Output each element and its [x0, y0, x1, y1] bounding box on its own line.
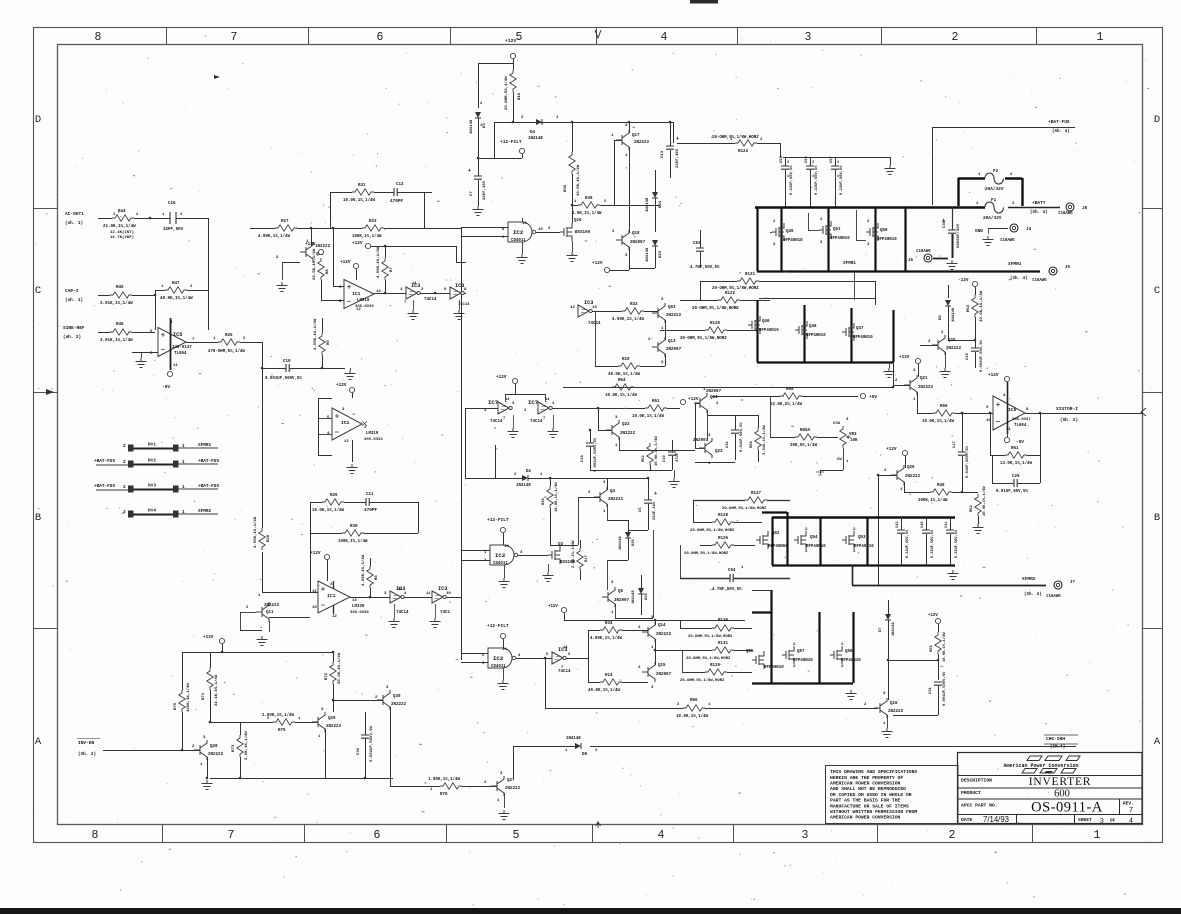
svg-text:1N2222: 1N2222 — [315, 245, 331, 249]
svg-text:2N2907: 2N2907 — [706, 390, 722, 394]
svg-text:20.5K,1%,1/4W: 20.5K,1%,1/4W — [312, 248, 317, 280]
svg-text:74C14: 74C14 — [424, 298, 437, 302]
svg-text:2: 2 — [123, 485, 126, 490]
svg-text:2.0K,1%,1/4W: 2.0K,1%,1/4W — [244, 731, 249, 760]
svg-text:3: 3 — [805, 31, 812, 44]
svg-text:Q29: Q29 — [328, 717, 336, 721]
svg-text:100K,1%,1/4W: 100K,1%,1/4W — [338, 539, 368, 544]
svg-text:10K: 10K — [850, 439, 858, 443]
svg-text:C31: C31 — [726, 440, 730, 448]
svg-text:+12V: +12V — [688, 397, 699, 402]
svg-text:R131: R131 — [718, 642, 729, 646]
svg-text:10: 10 — [312, 606, 317, 610]
svg-text:R26: R26 — [225, 334, 233, 338]
svg-text:Q48: Q48 — [809, 325, 817, 329]
svg-text:100K,1%,1/4W: 100K,1%,1/4W — [918, 498, 948, 503]
svg-text:+12V: +12V — [352, 241, 363, 246]
svg-text:#16AWG: #16AWG — [1058, 212, 1073, 216]
svg-text:R36: R36 — [585, 197, 593, 201]
svg-text:22UF,16V: 22UF,16V — [483, 180, 487, 200]
svg-text:14: 14 — [502, 648, 507, 652]
svg-text:Q51: Q51 — [833, 228, 841, 232]
svg-text:1: 1 — [812, 175, 814, 179]
svg-text:RFP40N10: RFP40N10 — [806, 545, 826, 549]
svg-text:C64: C64 — [728, 569, 736, 573]
svg-text:Q23: Q23 — [715, 450, 723, 454]
svg-text:H#3: H#3 — [148, 484, 156, 489]
svg-text:14: 14 — [545, 398, 550, 402]
svg-text:20-OHM,5%,1/8W,HORZ: 20-OHM,5%,1/8W,HORZ — [680, 678, 725, 683]
svg-text:10.0K,1%,1/4W: 10.0K,1%,1/4W — [922, 419, 954, 424]
svg-text:Q27: Q27 — [507, 779, 515, 783]
svg-text:0.001UF,50V,5%: 0.001UF,50V,5% — [980, 339, 984, 372]
svg-text:7: 7 — [231, 31, 238, 44]
svg-text:0.001UF,500V,5%: 0.001UF,500V,5% — [265, 377, 302, 381]
svg-text:14: 14 — [563, 646, 568, 650]
svg-text:R61: R61 — [1011, 447, 1019, 451]
svg-text:4.99K,1%,1/4W: 4.99K,1%,1/4W — [258, 234, 290, 239]
svg-text:4.99K,1%,1/4W: 4.99K,1%,1/4W — [253, 516, 258, 548]
svg-text:OS-0911-A: OS-0911-A — [1031, 800, 1103, 816]
svg-text:D5: D5 — [939, 315, 943, 320]
svg-text:600: 600 — [1054, 789, 1070, 800]
svg-text:470PF: 470PF — [364, 508, 378, 513]
svg-text:Q50: Q50 — [880, 229, 888, 233]
svg-text:2N2222: 2N2222 — [264, 604, 280, 608]
svg-text:340-0347: 340-0347 — [1012, 418, 1031, 422]
svg-text:R53: R53 — [967, 304, 971, 312]
svg-text:0.22UF,50V,5%: 0.22UF,50V,5% — [815, 165, 819, 195]
svg-text:20-OHM,5%,1/8W,HORZ: 20-OHM,5%,1/8W,HORZ — [684, 551, 729, 556]
svg-text:OR COPIED OR USED IN WHOLE OR: OR COPIED OR USED IN WHOLE OR — [830, 792, 912, 798]
svg-text:R29: R29 — [330, 494, 338, 498]
svg-text:AND SHALL NOT BE REPRODUCED: AND SHALL NOT BE REPRODUCED — [830, 786, 906, 792]
svg-text:RFP40N1E: RFP40N1E — [783, 239, 803, 243]
svg-text:20-OHM,5%,1/8W,HORZ: 20-OHM,5%,1/8W,HORZ — [686, 656, 731, 661]
svg-text:#16AWG: #16AWG — [1032, 279, 1047, 283]
svg-text:+12V: +12V — [886, 447, 897, 452]
svg-text:2N2907: 2N2907 — [630, 241, 646, 245]
svg-text:4.99K,1%,1/4W: 4.99K,1%,1/4W — [590, 636, 622, 641]
svg-text:(sh. 2): (sh. 2) — [63, 335, 81, 340]
svg-text:2: 2 — [123, 444, 126, 449]
svg-text:D26: D26 — [645, 592, 649, 600]
svg-text:(Sh. 2): (Sh. 2) — [1060, 418, 1078, 423]
svg-text:#16AWG: #16AWG — [1046, 595, 1061, 599]
svg-text:1.00K,1%,1/4W: 1.00K,1%,1/4W — [428, 777, 460, 782]
svg-text:R35: R35 — [564, 184, 568, 192]
svg-text:F1: F1 — [991, 198, 997, 203]
svg-text:7: 7 — [561, 666, 563, 670]
svg-text:CW: CW — [837, 458, 842, 462]
svg-text:OF: OF — [1110, 819, 1116, 824]
svg-text:+BATT: +BATT — [1032, 200, 1046, 206]
svg-text:0.22UF,50V,5%: 0.22UF,50V,5% — [906, 529, 910, 558]
svg-text:12: 12 — [332, 615, 337, 619]
svg-text:10.0K,1%,1/4W: 10.0K,1%,1/4W — [312, 508, 344, 513]
svg-text:J6: J6 — [908, 259, 913, 263]
svg-text:+: + — [654, 491, 657, 497]
svg-text:R54: R54 — [618, 379, 626, 383]
svg-text:C16: C16 — [168, 202, 176, 206]
svg-text:3.01K,1%,1/4W: 3.01K,1%,1/4W — [762, 425, 767, 455]
svg-text:10.0K,1%,1/4W: 10.0K,1%,1/4W — [676, 714, 708, 719]
svg-text:PRODUCT: PRODUCT — [961, 790, 981, 796]
svg-text:14: 14 — [522, 222, 527, 226]
svg-text:R50: R50 — [940, 405, 948, 409]
svg-text:AMERICAN POWER CONVERSION: AMERICAN POWER CONVERSION — [830, 815, 901, 821]
svg-text:D: D — [1154, 114, 1160, 126]
svg-text:LM339: LM339 — [352, 605, 365, 609]
svg-text:AMERICAN POWER CONVERSION: AMERICAN POWER CONVERSION — [830, 781, 901, 787]
svg-text:CCW: CCW — [833, 422, 841, 426]
svg-text:C13: C13 — [661, 150, 665, 158]
svg-text:HEREIN ARE THE PROPERTY OF: HEREIN ARE THE PROPERTY OF — [830, 775, 903, 781]
svg-text:R6: R6 — [375, 575, 379, 580]
svg-text:+12V: +12V — [592, 261, 603, 266]
svg-text:INV-EN: INV-EN — [78, 740, 95, 746]
svg-text:C19: C19 — [663, 454, 667, 462]
svg-text:22.1K,1%,1/4W: 22.1K,1%,1/4W — [214, 674, 219, 706]
svg-text:2N2907: 2N2907 — [614, 599, 630, 603]
svg-text:R129: R129 — [710, 664, 721, 668]
svg-text:D3: D3 — [483, 123, 487, 128]
svg-text:+12V: +12V — [203, 635, 214, 640]
svg-text:12.4K(INT): 12.4K(INT) — [110, 230, 134, 235]
svg-text:D24: D24 — [659, 200, 663, 208]
svg-text:GND: GND — [975, 229, 983, 234]
svg-text:5: 5 — [516, 31, 523, 44]
svg-text:IC3: IC3 — [455, 283, 464, 289]
svg-text:R76: R76 — [440, 793, 448, 797]
svg-text:47UF: 47UF — [676, 452, 680, 462]
svg-text:RFP40N10: RFP40N10 — [854, 545, 874, 549]
svg-text:APCC PART NO.: APCC PART NO. — [961, 803, 998, 809]
svg-text:10.0K,1%,1/4W: 10.0K,1%,1/4W — [632, 414, 664, 419]
svg-text:4.7NF,50V,5%: 4.7NF,50V,5% — [690, 266, 720, 270]
svg-text:R73: R73 — [232, 744, 236, 752]
svg-text:10.0K,1%,1/4W: 10.0K,1%,1/4W — [605, 393, 637, 398]
svg-text:+12V: +12V — [310, 551, 321, 556]
svg-text:6800UF/40V: 6800UF/40V — [956, 223, 961, 248]
svg-text:1N4148: 1N4148 — [566, 737, 581, 741]
svg-text:R7: R7 — [390, 267, 394, 272]
svg-text:0.01UF,500V,5%: 0.01UF,500V,5% — [966, 445, 970, 478]
svg-text:2N2222: 2N2222 — [391, 703, 407, 707]
svg-text:Q16: Q16 — [890, 702, 898, 706]
svg-text:7: 7 — [543, 417, 545, 421]
svg-text:SINE-REF: SINE-REF — [63, 325, 85, 331]
svg-text:7: 7 — [228, 829, 235, 842]
svg-text:IC1: IC1 — [352, 291, 361, 297]
svg-text:+12V: +12V — [928, 614, 938, 618]
svg-text:12: 12 — [344, 440, 349, 444]
svg-text:10.0K,1%,1/4W: 10.0K,1%,1/4W — [982, 486, 987, 516]
svg-text:R51: R51 — [652, 400, 660, 404]
svg-text:Q17: Q17 — [632, 134, 640, 138]
svg-text:D2: D2 — [526, 470, 532, 474]
svg-text:Q16: Q16 — [574, 219, 582, 223]
svg-text:+BAT-FUS: +BAT-FUS — [1048, 119, 1070, 125]
svg-text:R16: R16 — [542, 497, 546, 505]
svg-text:IC5: IC5 — [1008, 407, 1017, 413]
svg-text:R128: R128 — [718, 514, 729, 518]
svg-text:R121: R121 — [745, 273, 756, 277]
svg-text:2N2222: 2N2222 — [505, 787, 521, 791]
svg-text:R120: R120 — [710, 322, 721, 326]
svg-text:(Sh. 2): (Sh. 2) — [78, 752, 96, 757]
svg-text:Q13: Q13 — [668, 340, 676, 344]
svg-text:0.22UF,50V,5%: 0.22UF,50V,5% — [931, 529, 935, 558]
svg-text:10.0K,1%,1/4W: 10.0K,1%,1/4W — [979, 290, 984, 322]
svg-text:DESCRIPTION: DESCRIPTION — [961, 778, 992, 784]
svg-text:R47: R47 — [172, 282, 180, 286]
svg-text:Q49: Q49 — [786, 230, 794, 234]
svg-text:(Sh. 4): (Sh. 4) — [1010, 276, 1028, 281]
svg-text:2: 2 — [837, 161, 839, 165]
svg-text:C11: C11 — [366, 493, 374, 497]
svg-text:22.6K,2%,1/4W: 22.6K,2%,1/4W — [770, 402, 802, 407]
svg-text:AC-OUT1: AC-OUT1 — [65, 211, 84, 217]
svg-text:2N2222: 2N2222 — [326, 725, 342, 729]
svg-text:J7: J7 — [1070, 581, 1075, 585]
svg-text:R15: R15 — [518, 92, 522, 100]
svg-text:2N2222: 2N2222 — [620, 432, 636, 436]
svg-text:Q30: Q30 — [393, 695, 401, 699]
svg-text:360-0333: 360-0333 — [364, 438, 383, 442]
svg-text:1N4148: 1N4148 — [619, 536, 623, 550]
svg-text:IC1: IC1 — [327, 593, 336, 599]
svg-text:0.22UF,50V,5%: 0.22UF,50V,5% — [790, 165, 794, 195]
svg-text:DATE: DATE — [961, 817, 972, 823]
svg-text:TL064: TL064 — [1014, 424, 1027, 428]
svg-text:RFP40N10: RFP40N10 — [841, 659, 861, 663]
svg-text:R62: R62 — [970, 504, 974, 512]
svg-text:C40: C40 — [921, 522, 925, 528]
svg-text:R33: R33 — [369, 220, 377, 224]
svg-text:20-OHM,5%,1/8W,HORZ: 20-OHM,5%,1/8W,HORZ — [722, 506, 767, 511]
svg-text:+BAT-FUS: +BAT-FUS — [198, 459, 219, 464]
svg-text:RFP40N10: RFP40N10 — [806, 334, 826, 338]
svg-text:1: 1 — [787, 175, 789, 179]
svg-text:R31: R31 — [358, 184, 366, 188]
svg-text:H#4: H#4 — [148, 509, 156, 514]
svg-text:LM319: LM319 — [357, 299, 370, 303]
svg-text:RFP40N10: RFP40N10 — [830, 237, 850, 241]
svg-text:IC1: IC1 — [341, 420, 350, 426]
svg-text:+12V: +12V — [336, 383, 347, 388]
svg-text:Q11: Q11 — [266, 611, 274, 615]
svg-text:20K,5%,1/4W: 20K,5%,1/4W — [790, 443, 818, 448]
svg-text:CD4011: CD4011 — [491, 665, 506, 669]
svg-text:American Power Conversion: American Power Conversion — [1003, 763, 1078, 769]
svg-text:Q25: Q25 — [948, 339, 956, 343]
svg-text:R65A: R65A — [800, 429, 811, 433]
svg-text:2: 2 — [787, 161, 789, 165]
svg-text:R127: R127 — [751, 492, 762, 496]
svg-text:R27: R27 — [281, 220, 289, 224]
svg-text:+12-FILT: +12-FILT — [500, 139, 522, 145]
svg-text:22UF,16V: 22UF,16V — [676, 148, 680, 168]
svg-text:2: 2 — [123, 460, 126, 465]
svg-text:7/14/93: 7/14/93 — [983, 815, 1009, 824]
svg-text:20-OHM,5%,1/8W,NORZ: 20-OHM,5%,1/8W,NORZ — [680, 336, 727, 341]
svg-text:2: 2 — [812, 161, 814, 165]
svg-text:8: 8 — [92, 829, 99, 842]
svg-text:R66: R66 — [750, 440, 754, 448]
svg-text:B: B — [1154, 512, 1160, 524]
svg-text:2N2222: 2N2222 — [208, 753, 224, 757]
svg-text:7: 7 — [1129, 805, 1133, 814]
svg-text:11: 11 — [312, 590, 317, 594]
svg-text:7: 7 — [404, 301, 406, 305]
svg-text:R56: R56 — [690, 699, 698, 703]
svg-text:RFP40N10: RFP40N10 — [764, 666, 784, 670]
svg-text:D: D — [35, 114, 41, 126]
svg-text:CAP-I: CAP-I — [65, 288, 79, 294]
svg-text:F2: F2 — [993, 169, 999, 174]
svg-text:Q15: Q15 — [658, 664, 666, 668]
svg-text:2N2222: 2N2222 — [918, 386, 934, 390]
svg-text:2N2222: 2N2222 — [888, 710, 904, 714]
svg-text:10.0K,1%,1/4W: 10.0K,1%,1/4W — [343, 198, 375, 203]
svg-text:C7: C7 — [470, 191, 474, 196]
svg-text:Q5: Q5 — [618, 590, 624, 594]
svg-text:IC2: IC2 — [513, 229, 524, 236]
svg-text:0.001UF,500V,5%: 0.001UF,500V,5% — [594, 437, 598, 472]
svg-text:A: A — [1154, 736, 1161, 748]
svg-text:+: + — [676, 136, 679, 142]
svg-text:C10: C10 — [283, 360, 291, 364]
svg-text:4.99K,1%,1/4W: 4.99K,1%,1/4W — [612, 317, 644, 322]
svg-text:+BAT-FUS: +BAT-FUS — [198, 484, 219, 489]
svg-text:10: 10 — [446, 592, 451, 596]
svg-text:(sh. 1): (sh. 1) — [65, 298, 83, 303]
svg-text:J4: J4 — [1026, 227, 1032, 232]
svg-text:14: 14 — [398, 588, 403, 592]
svg-text:R28: R28 — [267, 534, 271, 542]
svg-text:D7: D7 — [879, 627, 883, 632]
svg-text:14: 14 — [412, 282, 417, 286]
svg-text:6: 6 — [377, 31, 384, 44]
svg-text:2: 2 — [480, 102, 482, 106]
svg-text:R65: R65 — [786, 388, 794, 392]
svg-text:C5: C5 — [639, 507, 643, 512]
svg-text:H#1: H#1 — [148, 443, 156, 448]
svg-text:+12V: +12V — [340, 260, 351, 265]
svg-text:R19: R19 — [622, 358, 630, 362]
svg-text:10.0K,1%,1/4W: 10.0K,1%,1/4W — [942, 632, 947, 662]
svg-text:RFP40N10: RFP40N10 — [853, 336, 873, 340]
svg-text:20.0K,1%,1/4W: 20.0K,1%,1/4W — [337, 652, 342, 684]
svg-text:21.0K,1%,1/4W: 21.0K,1%,1/4W — [103, 224, 136, 229]
svg-text:1.0K,1%,1/4W: 1.0K,1%,1/4W — [572, 211, 602, 216]
svg-text:H#2: H#2 — [148, 459, 156, 464]
svg-text:IC2: IC2 — [493, 655, 504, 662]
svg-text:R72: R72 — [325, 672, 329, 680]
svg-text:+12V: +12V — [988, 373, 999, 378]
svg-text:1N4148: 1N4148 — [646, 197, 650, 212]
svg-text:Q3: Q3 — [558, 543, 564, 547]
svg-text:R55: R55 — [930, 644, 934, 652]
svg-text:C59: C59 — [805, 155, 809, 163]
svg-text:11: 11 — [426, 592, 431, 596]
svg-text:Q55: Q55 — [746, 650, 754, 654]
svg-text:C20: C20 — [966, 352, 970, 360]
svg-text:Q57: Q57 — [797, 650, 805, 654]
svg-text:2: 2 — [952, 31, 959, 44]
svg-text:+: + — [942, 217, 946, 224]
svg-text:C29: C29 — [1012, 475, 1020, 479]
svg-text:+12V: +12V — [899, 355, 910, 360]
svg-text:100K,1%,1/4W: 100K,1%,1/4W — [186, 683, 191, 712]
svg-text:R8: R8 — [326, 269, 330, 274]
svg-text:XFMR2: XFMR2 — [198, 509, 212, 514]
svg-text:0.22UF,50V,5%: 0.22UF,50V,5% — [955, 529, 959, 558]
svg-text:R34: R34 — [605, 622, 613, 626]
svg-text:INVERTER: INVERTER — [1029, 776, 1092, 788]
svg-text:8: 8 — [95, 31, 102, 44]
svg-text:C42: C42 — [896, 522, 900, 528]
svg-text:4.99K,1%,1/4W: 4.99K,1%,1/4W — [361, 554, 366, 586]
svg-text:B: B — [35, 512, 41, 524]
svg-text:470PF: 470PF — [390, 199, 404, 204]
svg-text:CD4011: CD4011 — [493, 562, 508, 566]
svg-text:R70: R70 — [174, 702, 178, 710]
svg-text:+12V: +12V — [496, 375, 507, 380]
svg-text:+12V: +12V — [305, 242, 316, 247]
svg-text:PART AS THE BASIS FOR THE: PART AS THE BASIS FOR THE — [830, 798, 901, 804]
svg-text:2N2222: 2N2222 — [905, 475, 921, 479]
svg-text:VR3: VR3 — [849, 433, 857, 437]
svg-text:D8: D8 — [582, 753, 588, 757]
svg-text:1N4148: 1N4148 — [470, 119, 474, 134]
svg-text:R30: R30 — [350, 525, 358, 529]
svg-text:R75: R75 — [278, 729, 286, 733]
svg-text:1N4148: 1N4148 — [516, 484, 531, 488]
svg-text:20A/32V: 20A/32V — [985, 187, 1004, 192]
svg-text:R45: R45 — [116, 286, 124, 290]
svg-text:-12V: -12V — [958, 278, 969, 283]
svg-text:THIS DRAWING AND SPECIFICATION: THIS DRAWING AND SPECIFICATIONS — [830, 769, 917, 775]
svg-text:R52: R52 — [642, 454, 646, 462]
svg-text:Q14: Q14 — [658, 624, 666, 628]
svg-text:10.0K,1%,1/4W: 10.0K,1%,1/4W — [554, 482, 559, 512]
svg-text:+12V: +12V — [505, 38, 516, 44]
svg-text:C57: C57 — [830, 155, 834, 163]
svg-text:C: C — [35, 285, 41, 297]
svg-text:3.01K,1%,1/4W: 3.01K,1%,1/4W — [100, 301, 133, 306]
svg-text:C30: C30 — [357, 747, 361, 755]
svg-text:10.0K,1%,1/4W: 10.0K,1%,1/4W — [654, 436, 659, 466]
svg-text:R71: R71 — [202, 692, 206, 700]
svg-text:(Sh. 4): (Sh. 4) — [1024, 592, 1042, 597]
svg-text:4.99K,1%,1/4W: 4.99K,1%,1/4W — [313, 318, 318, 350]
svg-text:5: 5 — [513, 829, 520, 842]
svg-text:RFP40N10: RFP40N10 — [793, 659, 813, 663]
svg-text:2N2222: 2N2222 — [946, 347, 962, 351]
svg-text:#10AWG: #10AWG — [1000, 239, 1015, 243]
svg-text:XFMR2: XFMR2 — [1022, 576, 1036, 582]
svg-text:CHG-INH: CHG-INH — [1046, 736, 1065, 742]
svg-text:74C14: 74C14 — [396, 611, 409, 615]
svg-text:20-OHM,5%,1/8W,HORZ: 20-OHM,5%,1/8W,HORZ — [712, 286, 759, 291]
svg-text:+BAT-FUS: +BAT-FUS — [94, 484, 115, 489]
svg-text:(sh. 1): (sh. 1) — [65, 221, 83, 226]
svg-text:LM319: LM319 — [366, 432, 379, 436]
svg-text:XISTOR-I: XISTOR-I — [1056, 406, 1078, 412]
svg-text:1: 1 — [1094, 829, 1101, 842]
